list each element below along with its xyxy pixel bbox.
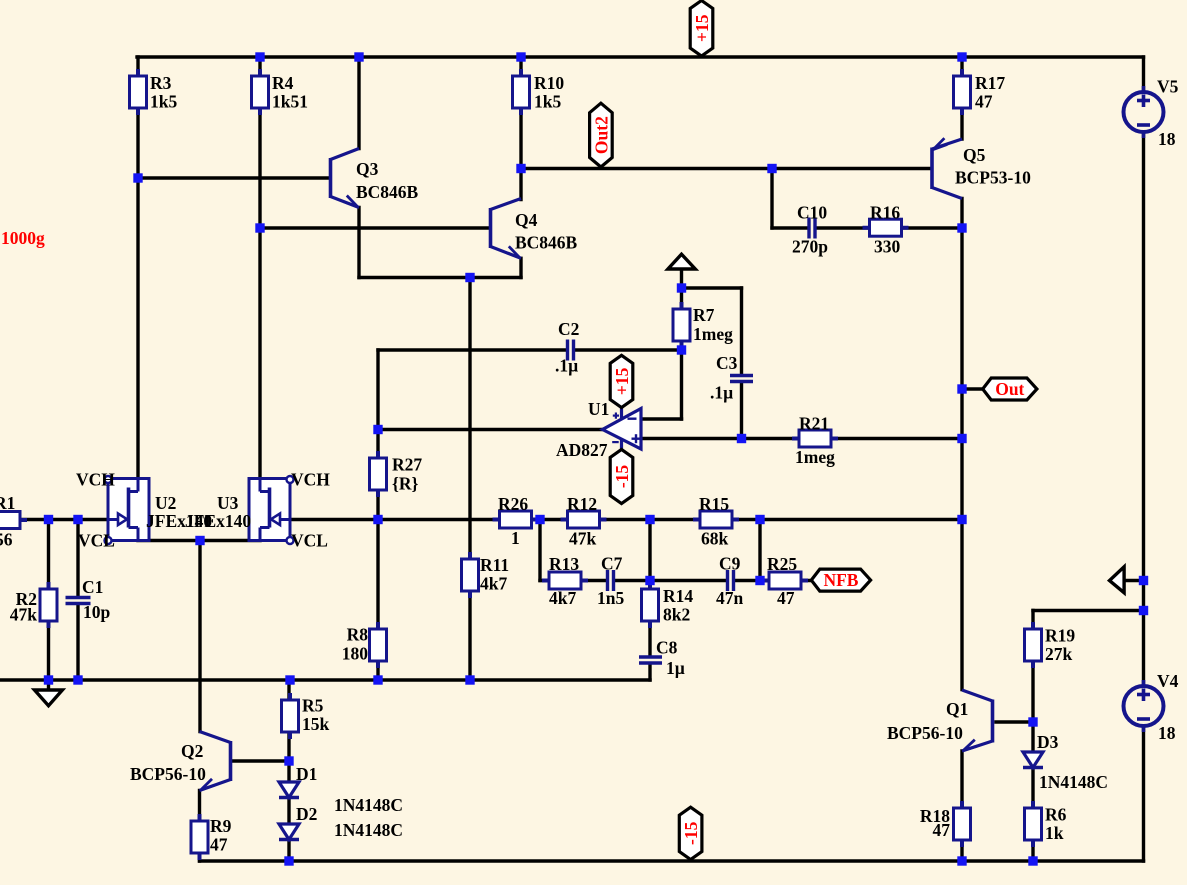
junction (540,519.5) [535, 515, 544, 524]
resistor R5 [282, 693, 299, 739]
wire C10 branch drop [770, 169, 773, 229]
resistor R15 [693, 511, 739, 528]
svg-text:Q5: Q5 [963, 145, 986, 165]
wire C8 bottom lead [648, 664, 651, 680]
svg-text:Q3: Q3 [356, 159, 379, 179]
svg-text:330: 330 [874, 237, 901, 257]
wire R7 top to C3 corner [682, 286, 742, 289]
junction (650,580.5) [645, 576, 654, 585]
svg-text:Q4: Q4 [515, 210, 538, 230]
resistor R27 [370, 451, 387, 497]
svg-text:47k: 47k [10, 605, 38, 625]
svg-text:1N4148C: 1N4148C [334, 820, 403, 840]
junction (378,680) [373, 675, 382, 684]
junction (1143.5,580.5) [1139, 576, 1148, 585]
svg-text:VCL: VCL [291, 531, 328, 551]
junction (962,438.5) [957, 434, 966, 443]
wire R5/D1/D2 vertical [287, 680, 290, 861]
svg-text:1meg: 1meg [795, 447, 835, 467]
wire R4/U3 drain vertical [258, 57, 261, 479]
wire Q4 base [260, 226, 489, 229]
wire Q2 emitter / R9 vertical [198, 791, 201, 862]
svg-text:47: 47 [933, 820, 951, 840]
diode D3 [1023, 752, 1043, 768]
transistor Q4 BC846B [491, 199, 522, 259]
svg-text:R11: R11 [480, 555, 509, 575]
wire R26 to R13 drop [538, 520, 541, 581]
svg-text:47: 47 [777, 588, 795, 608]
junction (78,680) [73, 675, 82, 684]
svg-text:R3: R3 [150, 73, 172, 93]
svg-text:1: 1 [511, 528, 520, 548]
wire R19/D3/R6 vertical [1031, 611, 1034, 862]
wire Q5 collector long vertical [960, 199, 963, 690]
svg-text:BC846B: BC846B [515, 233, 578, 253]
net flag +15 (U1) [610, 355, 633, 407]
wire U2-U3 source row [138, 539, 260, 542]
net flag Out2 [590, 103, 613, 167]
resistor R6 [1025, 801, 1042, 847]
svg-text:.1µ: .1µ [555, 356, 578, 376]
resistor R3 [130, 69, 147, 115]
svg-text:+15: +15 [612, 367, 632, 395]
wire emitter row Q3-Q4 [359, 276, 521, 279]
svg-text:270p: 270p [792, 237, 828, 257]
svg-text:R17: R17 [975, 73, 1005, 93]
svg-text:1n5: 1n5 [597, 588, 624, 608]
junction (200,540.5) [195, 536, 204, 545]
wire V4 bottom lead [1142, 726, 1145, 861]
transistor Q2 BCP56-10 [200, 732, 231, 791]
resistor R16 [863, 219, 909, 236]
wire R10/Q4 collector vertical [519, 57, 522, 200]
resistor R7 [673, 302, 690, 348]
junction (378,519.5) [373, 515, 382, 524]
svg-text:47: 47 [210, 835, 228, 855]
junction (289,861) [284, 856, 293, 865]
transistor Q5 BCP53-10 [932, 138, 962, 198]
resistor R9 [191, 814, 208, 860]
junction (760,580.5) [755, 576, 764, 585]
svg-text:R26: R26 [498, 494, 528, 514]
junction (681.5,288) [677, 283, 686, 292]
wire Q4 emitter drop [519, 258, 522, 277]
svg-text:R12: R12 [567, 494, 597, 514]
wire Out stub [962, 387, 983, 390]
svg-text:VCL: VCL [78, 531, 115, 551]
wire R27/R8 vertical [376, 350, 379, 680]
wire R21 row (op-amp - input) [641, 437, 962, 440]
junction (138,178) [133, 173, 142, 182]
junction (48.5,680) [44, 675, 53, 684]
svg-text:R13: R13 [549, 554, 579, 574]
svg-text:Out: Out [995, 379, 1024, 399]
svg-text:VCH: VCH [76, 470, 115, 490]
svg-text:Q2: Q2 [181, 741, 203, 761]
svg-text:R8: R8 [347, 625, 369, 645]
net flag +15 (U1) text [612, 367, 632, 395]
wire Q1 base [996, 720, 1033, 723]
svg-text:NFB: NFB [823, 570, 858, 590]
svg-text:1k: 1k [1045, 823, 1064, 843]
net flag NFB [811, 569, 870, 591]
wire right rail V5-V4 [1142, 132, 1145, 686]
svg-text:R1: R1 [0, 493, 15, 513]
net flag +15 (top rail) [690, 1, 713, 57]
net flag -15 (bottom rail) [679, 807, 702, 859]
svg-text:10p: 10p [83, 602, 111, 622]
svg-text:1N4148C: 1N4148C [334, 795, 403, 815]
svg-text:56: 56 [0, 530, 13, 550]
diode D2 [279, 824, 299, 840]
svg-text:R5: R5 [302, 696, 324, 716]
svg-text:R25: R25 [767, 554, 797, 574]
wire arrow stub [1124, 579, 1144, 582]
svg-text:18: 18 [1158, 723, 1176, 743]
JFET U2 JFEx140 [105, 476, 150, 544]
svg-text:R7: R7 [693, 305, 715, 325]
junction (290,680) [285, 675, 294, 684]
wire Q3 emitter drop [357, 208, 360, 278]
svg-text:V5: V5 [1157, 77, 1179, 97]
svg-text:C3: C3 [716, 353, 738, 373]
junction (48.5,519.5) [44, 515, 53, 524]
wire Out2 row to Q5 base [521, 167, 930, 170]
resistor R13 [542, 572, 588, 589]
net flag -15 (U1) [610, 449, 633, 503]
svg-text:R21: R21 [799, 414, 829, 434]
svg-text:C1: C1 [82, 577, 103, 597]
svg-text:D3: D3 [1037, 732, 1059, 752]
svg-text:AD827: AD827 [556, 440, 608, 460]
wire R13 segment [540, 579, 606, 582]
wire Q1 emitter / R18 vertical [960, 751, 963, 861]
resistor R12 [561, 511, 607, 528]
JFET U3 JFEx140 [249, 476, 294, 544]
resistor R14 [642, 582, 659, 628]
wire Q3 base [138, 176, 329, 179]
svg-text:C8: C8 [656, 638, 678, 658]
svg-text:47n: 47n [716, 588, 744, 608]
op-amp U1 AD827 [603, 409, 642, 450]
svg-text:27k: 27k [1045, 644, 1073, 664]
resistor R18 [954, 801, 971, 847]
resistor R1 [0, 512, 27, 529]
svg-text:4k7: 4k7 [480, 574, 507, 594]
resistor R25 [762, 572, 808, 589]
junction (962,228) [957, 223, 966, 232]
wire node X vertical R11 [468, 278, 471, 681]
resistor R10 [513, 69, 530, 115]
svg-text:47: 47 [975, 92, 993, 112]
wire -15 bottom rail [200, 859, 1144, 862]
svg-text:R10: R10 [534, 73, 564, 93]
svg-text:VCH: VCH [291, 470, 330, 490]
capacitor C10 [809, 218, 815, 239]
wire C9 to NFB segment [735, 579, 812, 582]
svg-text:C7: C7 [601, 554, 623, 574]
arrow marker (above R7) [668, 254, 695, 269]
net flag -15 (bottom rail) text [681, 821, 701, 845]
svg-text:-15: -15 [681, 821, 701, 845]
svg-text:C9: C9 [719, 554, 741, 574]
capacitor C9 [728, 570, 734, 591]
svg-text:68k: 68k [701, 529, 729, 549]
svg-text:R19: R19 [1045, 626, 1075, 646]
svg-text:R4: R4 [272, 73, 294, 93]
svg-text:D2: D2 [296, 804, 317, 824]
diode D1 [279, 782, 299, 798]
svg-text:1k5: 1k5 [150, 92, 177, 112]
junction (962,519.5) [957, 515, 966, 524]
wire left vertical R3/U2 drain [136, 57, 139, 479]
svg-text:BC846B: BC846B [356, 182, 419, 202]
resistor R19 [1025, 622, 1042, 668]
svg-text:R16: R16 [870, 203, 900, 223]
svg-text:V4: V4 [1157, 671, 1179, 691]
junction (650,519.5) [645, 515, 654, 524]
junction (760,519.5) [755, 515, 764, 524]
svg-text:BCP53-10: BCP53-10 [955, 168, 1031, 188]
svg-text:BCP56-10: BCP56-10 [887, 723, 963, 743]
wire R19 top row [1033, 609, 1144, 612]
junction (681.5,350) [677, 345, 686, 354]
svg-text:R15: R15 [699, 494, 729, 514]
svg-text:R14: R14 [663, 586, 693, 606]
wire U3 gate to R26/R12/R15 row [290, 518, 962, 521]
svg-text:U1: U1 [588, 399, 609, 419]
svg-text:R27: R27 [392, 455, 422, 475]
net flag Out [983, 378, 1037, 400]
voltage source V5 [1124, 86, 1164, 138]
wire C7 to C9 segment [615, 579, 726, 582]
wire C1 bottom lead [76, 605, 79, 680]
resistor R17 [954, 69, 971, 115]
wire +15 top rail [137, 55, 1144, 58]
junction (1033,722) [1028, 717, 1037, 726]
wire U1 V+ stem [620, 406, 623, 419]
wire R2 vertical [47, 520, 50, 681]
resistor R8 [370, 622, 387, 668]
junction (741.5,438.5) [737, 434, 746, 443]
resistor R21 [792, 430, 838, 447]
junction (470,680) [465, 675, 474, 684]
wire R17/Q5 emitter vertical [960, 57, 963, 139]
capacitor C2 [568, 340, 574, 361]
svg-text:-15: -15 [612, 465, 632, 489]
resistor R11 [462, 552, 479, 598]
svg-text:47k: 47k [569, 529, 597, 549]
wire ground row [0, 678, 650, 681]
svg-text:1k5: 1k5 [534, 92, 561, 112]
capacitor C3 [730, 376, 753, 382]
wire Q2 collector vertical [198, 541, 201, 732]
junction (521,57) [516, 52, 525, 61]
capacitor C1 [66, 598, 91, 604]
transistor Q3 BC846B [331, 149, 360, 208]
net flag Out2 text [591, 116, 611, 154]
junction (1143.5,610.5) [1139, 606, 1148, 615]
junction (260,228) [255, 223, 264, 232]
wire C3 bottom lead [740, 384, 743, 439]
svg-text:180: 180 [342, 644, 369, 664]
wire R7 bottom / op-amp + input vertical [680, 341, 683, 419]
svg-text:Q1: Q1 [946, 699, 968, 719]
svg-text:R6: R6 [1045, 805, 1067, 825]
wire C1 top lead [76, 520, 79, 597]
wire R16 to Q5 collector [816, 226, 962, 229]
junction (962,861) [957, 856, 966, 865]
svg-text:15k: 15k [302, 714, 330, 734]
svg-text:4k7: 4k7 [549, 588, 576, 608]
wire Q3 collector [357, 57, 360, 149]
wire Q2 base [231, 759, 289, 762]
junction (260,57) [255, 52, 264, 61]
svg-text:18: 18 [1158, 129, 1176, 149]
junction (378,429.5) [373, 425, 382, 434]
svg-text:1000g: 1000g [1, 228, 45, 248]
svg-text:1µ: 1µ [666, 658, 685, 678]
junction (962,57) [957, 52, 966, 61]
svg-text:+15: +15 [692, 14, 712, 42]
wire U1 V- stem [620, 439, 623, 451]
resistor R2 [40, 582, 57, 628]
wire C2 row left [378, 348, 566, 351]
resistor R4 [252, 69, 269, 115]
svg-text:JFEx140: JFEx140 [185, 511, 251, 531]
svg-text:D1: D1 [296, 764, 317, 784]
svg-text:C2: C2 [558, 319, 579, 339]
junction (359,57) [354, 52, 363, 61]
wire C3 top lead [740, 288, 743, 375]
junction (772,168.5) [767, 164, 776, 173]
wire arrow stem to R7 [680, 269, 683, 309]
junction (1033,861) [1028, 856, 1037, 865]
svg-text:U3: U3 [217, 493, 239, 513]
wire op-amp + input [641, 417, 682, 420]
svg-text:1N4148C: 1N4148C [1039, 772, 1108, 792]
ground symbol [35, 680, 63, 706]
svg-text:{R}: {R} [392, 474, 419, 494]
capacitor C8 [639, 657, 662, 663]
svg-text:1meg: 1meg [693, 324, 733, 344]
svg-text:Out2: Out2 [591, 116, 611, 154]
svg-text:C10: C10 [797, 203, 827, 223]
junction (962,389) [957, 384, 966, 393]
voltage source V4 [1124, 680, 1164, 732]
svg-text:.1µ: .1µ [710, 383, 733, 403]
wire R15 to NFB row drop [758, 520, 761, 581]
svg-text:8k2: 8k2 [663, 605, 690, 625]
net flag +15 (top rail) text [692, 14, 712, 42]
svg-text:R9: R9 [210, 816, 232, 836]
wire C2 row right [575, 348, 682, 351]
junction (78,519.5) [73, 515, 82, 524]
svg-text:BCP56-10: BCP56-10 [130, 764, 206, 784]
wire V5 top lead [1142, 57, 1145, 92]
wire R14 vertical [648, 520, 651, 656]
transistor Q1 BCP56-10 [962, 690, 993, 751]
arrow marker (right rail) [1110, 567, 1125, 593]
svg-text:U2: U2 [155, 493, 176, 513]
capacitor C7 [608, 570, 614, 591]
junction (521,168.5) [516, 164, 525, 173]
svg-text:1k51: 1k51 [272, 92, 308, 112]
wire C10 left lead [772, 226, 808, 229]
wire R1 to U2 gate [0, 518, 108, 521]
net flag -15 (U1) text [612, 465, 632, 489]
wire op-amp output row [378, 428, 603, 431]
junction (289,761) [284, 756, 293, 765]
resistor R26 [493, 511, 539, 528]
junction (470,277.5) [465, 273, 474, 282]
